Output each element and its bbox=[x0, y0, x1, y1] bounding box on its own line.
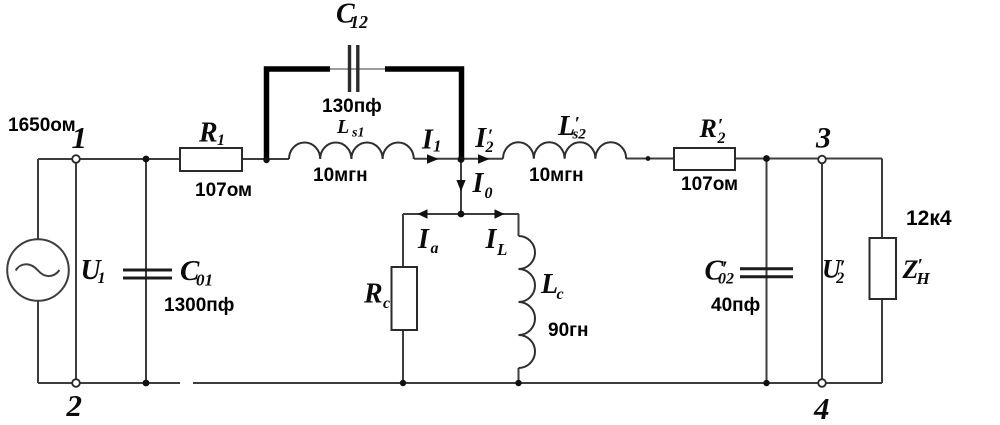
svg-text:0: 0 bbox=[485, 185, 493, 202]
svg-text:2: 2 bbox=[66, 388, 83, 423]
svg-text:90гн: 90гн bbox=[548, 320, 589, 341]
svg-text:R: R bbox=[363, 279, 383, 310]
svg-text:12: 12 bbox=[350, 12, 368, 32]
svg-text:′: ′ bbox=[840, 256, 846, 280]
svg-text:L: L bbox=[496, 240, 507, 259]
svg-text:1: 1 bbox=[433, 137, 442, 156]
svg-text:12к4: 12к4 bbox=[906, 207, 952, 230]
svg-text:3: 3 bbox=[815, 122, 831, 155]
svg-text:a: a bbox=[431, 240, 439, 257]
svg-text:I: I bbox=[417, 224, 430, 255]
svg-text:107ом: 107ом bbox=[195, 180, 252, 201]
svg-text:′: ′ bbox=[718, 116, 723, 137]
svg-text:′: ′ bbox=[488, 126, 493, 147]
svg-text:10мгн: 10мгн bbox=[529, 165, 584, 186]
svg-text:1: 1 bbox=[72, 120, 88, 155]
svg-text:I: I bbox=[485, 224, 498, 255]
svg-text:1300пф: 1300пф bbox=[164, 295, 234, 316]
svg-text:′: ′ bbox=[722, 256, 728, 281]
svg-text:R: R bbox=[198, 118, 218, 149]
svg-text:s1: s1 bbox=[351, 126, 364, 141]
svg-text:c: c bbox=[557, 286, 564, 303]
svg-text:′: ′ bbox=[918, 256, 923, 277]
svg-text:I: I bbox=[472, 168, 485, 199]
svg-text:L: L bbox=[540, 269, 558, 300]
svg-text:40пф: 40пф bbox=[711, 295, 760, 316]
svg-text:1650ом: 1650ом bbox=[8, 115, 76, 136]
svg-text:R: R bbox=[699, 114, 717, 143]
svg-text:01: 01 bbox=[196, 271, 213, 290]
svg-text:1: 1 bbox=[98, 270, 106, 287]
svg-text:1: 1 bbox=[217, 132, 225, 149]
svg-text:L: L bbox=[336, 116, 349, 138]
svg-text:130пф: 130пф bbox=[322, 96, 382, 117]
svg-text:′: ′ bbox=[575, 114, 580, 135]
svg-text:10мгн: 10мгн bbox=[313, 165, 368, 186]
svg-text:107ом: 107ом bbox=[681, 174, 738, 195]
svg-text:4: 4 bbox=[813, 391, 830, 425]
svg-text:c: c bbox=[383, 295, 390, 312]
